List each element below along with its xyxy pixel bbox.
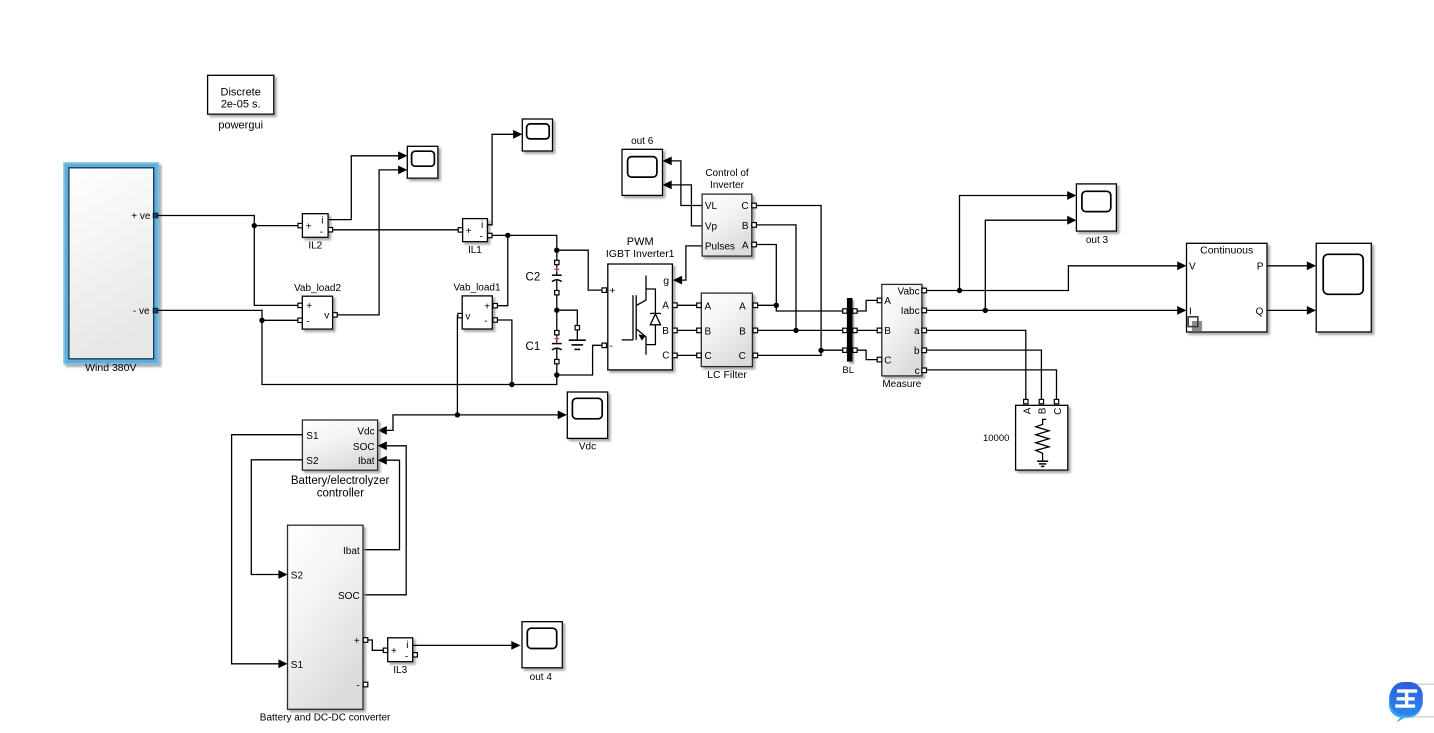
wire Vab_load1 - down to dc rail [497, 320, 514, 387]
svg-text:S1: S1 [291, 660, 304, 671]
decorative page rule lines [1404, 684, 1434, 717]
current measurement IL2 [298, 214, 333, 252]
wire Wind -ve to Vab_load2 - (branch down to dc rail) [158, 310, 299, 323]
svg-text:A: A [739, 301, 746, 312]
svg-text:b: b [914, 346, 920, 357]
svg-text:Vp: Vp [705, 222, 718, 233]
current measurement IL1 [458, 219, 492, 257]
svg-text:Vab_load1: Vab_load1 [453, 282, 501, 293]
svg-text:-: - [356, 681, 359, 692]
wire BL to Measure A [857, 300, 877, 311]
wire Control C input from phase C [756, 206, 821, 351]
svg-text:Battery/electrolyzer: Battery/electrolyzer [291, 475, 390, 487]
svg-text:Pulses: Pulses [705, 242, 735, 253]
svg-text:C: C [1053, 408, 1064, 415]
svg-text:Measure: Measure [882, 379, 921, 390]
wire Vab_load2 v up to scope input 2 [337, 166, 407, 315]
svg-text:+ ve: + ve [131, 211, 151, 222]
wire Control Vp to out 6 input 2 [663, 181, 702, 226]
svg-text:S1: S1 [306, 431, 319, 442]
wire Wind +ve to IL2 + (branch down to Vab_load2 +) [158, 216, 299, 306]
powergui block [208, 75, 274, 131]
svg-text:B: B [739, 326, 746, 337]
svg-text:-: - [405, 651, 408, 662]
svg-text:g: g [663, 275, 669, 287]
Battery/electrolyzer controller block [291, 420, 390, 499]
svg-text:-: - [480, 232, 483, 243]
svg-text:+: + [306, 301, 312, 312]
svg-text:IL1: IL1 [468, 245, 482, 256]
wire IL1 - to DC+ node (branch to Vab_load1 +, C2, inverter +) [492, 233, 602, 306]
svg-text:P: P [1257, 262, 1264, 273]
svg-text:B: B [742, 221, 749, 232]
svg-text:c: c [915, 366, 920, 377]
svg-text:Ibat: Ibat [358, 456, 375, 467]
svg-text:-: - [484, 316, 487, 327]
svg-text:2e-05 s.: 2e-05 s. [221, 98, 261, 110]
wire IL2 - to IL1 + [333, 229, 460, 231]
svg-text:LC Filter: LC Filter [707, 369, 747, 381]
scope out 6 (inputs on right) [622, 136, 663, 196]
scope Vdc [567, 392, 607, 453]
LC Filter block [697, 293, 758, 381]
three-phase load block 10000 [983, 399, 1068, 470]
svg-text:-: - [610, 341, 613, 352]
capacitor C2 [526, 260, 562, 295]
Measure block [877, 284, 926, 390]
svg-text:B: B [1038, 407, 1049, 414]
svg-text:C1: C1 [526, 341, 541, 353]
svg-text:+: + [484, 301, 490, 312]
wire Measure Vabc to Continuous V (branch up to out 3 input 1) [927, 191, 1187, 293]
svg-text:controller: controller [317, 487, 364, 499]
voltage measurement Vab_load2 [294, 283, 342, 329]
svg-text:SOC: SOC [338, 591, 360, 602]
svg-text:Ibat: Ibat [343, 546, 360, 557]
wire Measure a to load A [927, 330, 1026, 400]
scope out 4 [522, 622, 562, 684]
wire C1 bottom to inverter - and dc rail back to Wind [262, 323, 602, 385]
wire Measure b to load B [927, 350, 1042, 400]
scope Scope2 (one input) [522, 119, 552, 151]
svg-text:-: - [320, 227, 323, 238]
svg-text:10000: 10000 [983, 433, 1009, 444]
svg-text:v: v [324, 311, 329, 322]
wire IL1 i output up to scope2 [488, 130, 523, 225]
svg-text:VL: VL [705, 201, 718, 212]
source block Wind 380V [64, 163, 158, 374]
svg-text:i: i [321, 215, 323, 226]
scope Scope1 (two inputs) [407, 146, 438, 178]
resistor + ground icon inside load [1036, 419, 1049, 466]
svg-text:BL: BL [842, 365, 854, 376]
svg-text:Iabc: Iabc [901, 306, 920, 317]
svg-text:a: a [914, 326, 920, 337]
wire battery + to IL3 + [368, 640, 384, 650]
svg-text:C2: C2 [526, 272, 541, 284]
PQ measurement block Continuous [1187, 243, 1268, 332]
svg-text:+: + [391, 646, 397, 657]
svg-text:Inverter: Inverter [710, 180, 745, 191]
svg-text:SOC: SOC [353, 442, 375, 453]
wire Continuous P to scope [1267, 261, 1316, 270]
svg-text:IL3: IL3 [393, 665, 407, 676]
capacitor C1 [526, 331, 562, 364]
svg-text:Wind 380V: Wind 380V [85, 362, 136, 374]
wire Control A input from phase A [756, 245, 776, 306]
svg-text:- ve: - ve [133, 306, 150, 317]
scope (P,Q display) [1316, 243, 1371, 332]
svg-text:IL2: IL2 [308, 241, 322, 252]
PWM IGBT Inverter1 block [602, 236, 677, 370]
wire controller S1 to battery S1 [232, 435, 303, 668]
svg-text:+: + [354, 636, 360, 647]
svg-text:C: C [741, 201, 748, 212]
svg-text:S2: S2 [291, 571, 304, 582]
igbt + diode icon inside inverter [622, 276, 661, 355]
svg-text:+: + [466, 226, 472, 237]
wire battery SOC to controller SOC [363, 441, 406, 594]
svg-text:powergui: powergui [218, 120, 263, 132]
wire Control Pulses to inverter g [673, 246, 702, 285]
wire Continuous Q to scope [1267, 306, 1316, 315]
wire Measure c to load C [927, 370, 1057, 401]
wire IL3 i to out 4 [413, 641, 521, 650]
svg-text:IGBT Inverter1: IGBT Inverter1 [606, 248, 675, 260]
svg-text:PWM: PWM [627, 236, 654, 248]
svg-text:Discrete: Discrete [221, 87, 261, 99]
svg-text:S2: S2 [306, 456, 319, 467]
svg-text:B: B [662, 326, 669, 337]
wire inverter B to LC filter B [677, 329, 700, 331]
wire Vab_load1 v down to controller Vdc and Vdc scope [378, 316, 567, 435]
svg-text:+: + [610, 286, 616, 297]
svg-text:Vdc: Vdc [579, 442, 596, 453]
wire LC filter C to bus BL [758, 348, 845, 356]
wire Measure Iabc to Continuous I (branch up to out 3 input 2) [927, 216, 1187, 315]
svg-text:Vdc: Vdc [357, 426, 374, 437]
svg-text:i: i [406, 640, 408, 651]
svg-text:Vabc: Vabc [898, 286, 920, 297]
svg-text:A: A [742, 241, 749, 252]
svg-text:I: I [1189, 306, 1192, 317]
wire BL to Measure B [857, 329, 877, 331]
svg-text:C: C [705, 351, 712, 362]
svg-text:C: C [739, 351, 746, 362]
wire inverter C to LC filter C [677, 354, 700, 356]
svg-text:v: v [465, 311, 470, 322]
svg-text:i: i [481, 220, 483, 231]
svg-text:-: - [306, 316, 309, 327]
svg-text:out 4: out 4 [530, 672, 553, 683]
wire C2 to C1 (mid node, branch to ground) [554, 295, 577, 331]
Battery and DC-DC converter block [260, 525, 391, 723]
wire IL2 i output up to scope [328, 151, 407, 219]
ground (dc midpoint) [569, 326, 586, 350]
svg-text:out 3: out 3 [1086, 235, 1109, 246]
Control of Inverter block [702, 168, 756, 256]
current measurement IL3 [383, 638, 417, 676]
svg-text:A: A [884, 296, 891, 307]
svg-text:V: V [1189, 262, 1196, 273]
wire battery Ibat to controller Ibat [363, 456, 400, 550]
scope out 3 [1076, 184, 1116, 246]
svg-text:Control of: Control of [705, 168, 749, 179]
svg-text:+: + [306, 221, 312, 232]
bus bar BL [842, 298, 857, 376]
wire LC filter B to bus BL [758, 328, 845, 333]
svg-text:C: C [884, 355, 891, 366]
svg-text:A: A [1022, 407, 1033, 414]
wire controller S2 to battery S2 [251, 460, 302, 579]
svg-text:A: A [662, 301, 669, 312]
svg-text:Vab_load2: Vab_load2 [294, 283, 342, 294]
svg-text:Battery and DC-DC converter: Battery and DC-DC converter [260, 713, 391, 724]
wire BL to Measure C [857, 350, 877, 359]
svg-text:out 6: out 6 [631, 136, 654, 147]
wire Control B input from phase B [756, 225, 796, 331]
svg-text:Continuous: Continuous [1200, 245, 1253, 257]
svg-text:C: C [662, 351, 669, 362]
svg-text:A: A [705, 301, 712, 312]
svg-text:Q: Q [1256, 306, 1264, 317]
svg-text:B: B [705, 326, 712, 337]
wire LC filter A to bus BL (junction with control C feedback) [758, 303, 845, 311]
voltage measurement Vab_load1 [453, 282, 501, 329]
chat logo badge [1389, 682, 1423, 723]
wire Control VL to out 6 input 1 [663, 157, 702, 206]
svg-text:B: B [884, 326, 891, 337]
wire inverter A to LC filter A [677, 304, 700, 306]
